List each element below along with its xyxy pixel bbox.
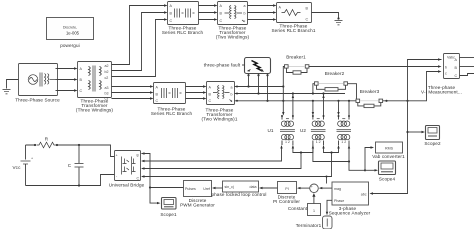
svg-text:Breaker3: Breaker3 (360, 89, 380, 94)
wire U3 right leg riser to bus C (348, 100, 350, 115)
Vcc DC source (12, 145, 33, 186)
svg-text:Pulses: Pulses (185, 187, 196, 191)
svg-text:Discrete,: Discrete, (63, 26, 77, 30)
svg-text:1 2: 1 2 (316, 140, 321, 144)
phase B wire (bus) (235, 92, 346, 94)
svg-text:a: a (231, 86, 233, 90)
wire top rail to bridge + (26, 144, 115, 157)
svg-text:(Two Windings)1: (Two Windings)1 (201, 117, 237, 122)
breaker1 (285, 55, 309, 75)
svg-text:C: C (220, 19, 223, 23)
svg-text:a: a (244, 4, 246, 8)
svg-text:c: c (244, 19, 246, 23)
wire breaker1 output to V-I measurement B (309, 65, 442, 67)
wire source A to transformer (58, 67, 78, 69)
RMS block (372, 142, 405, 159)
svg-text:U1: U1 (267, 128, 273, 133)
powergui block (47, 18, 94, 49)
wire branch up to RMS block (365, 146, 374, 170)
wire b3 to RLC branch B (112, 91, 154, 93)
svg-text:C: C (156, 99, 159, 103)
svg-text:Series RLC Branch: Series RLC Branch (162, 30, 204, 35)
svg-text:V-I Measurement...: V-I Measurement... (421, 90, 462, 95)
svg-text:1: 1 (313, 209, 315, 213)
svg-text:b2: b2 (105, 70, 109, 74)
three-phase series RLC branch (second feeder) (151, 83, 193, 117)
wires transformer to series RLC branch1 (248, 4, 277, 20)
wire U1-U2 secondary link (292, 145, 314, 153)
three-phase V-I measurement block (421, 54, 462, 95)
transformer U3 drop from bus C (337, 101, 339, 116)
wire V-I output C (460, 74, 474, 76)
phase A wire (bus) (235, 85, 285, 87)
transformer U1 (267, 115, 294, 145)
svg-text:Uref: Uref (203, 187, 210, 191)
sin_wt data block (PLL control) (211, 181, 266, 197)
three-phase source V1 (15, 64, 60, 103)
transformer U2 (300, 115, 326, 145)
breaker3 (356, 89, 383, 108)
svg-text:Universal Bridge: Universal Bridge (109, 183, 145, 188)
three-phase transformer (two windings)1 (201, 82, 237, 122)
svg-text:Scope2: Scope2 (424, 141, 441, 146)
bottom rail wire to bridge - (26, 175, 115, 187)
svg-text:PI Controller: PI Controller (273, 199, 300, 204)
svg-text:Vcc: Vcc (12, 165, 21, 170)
wire sum to PI (297, 187, 310, 189)
svg-text:+: + (31, 157, 33, 161)
svg-text:g: g (137, 153, 139, 157)
svg-text:PI: PI (285, 187, 288, 191)
svg-text:mag: mag (334, 187, 341, 191)
wires RLC branch to two-winding transformer (199, 4, 218, 20)
svg-text:phase locked loop control: phase locked loop control (211, 192, 266, 197)
svg-text:C: C (170, 19, 173, 23)
fault stem B (258, 74, 260, 94)
wire pulses branch to scope1 (150, 188, 161, 205)
svg-text:b: b (231, 93, 233, 97)
svg-text:C: C (137, 177, 140, 181)
wire U2-U3 secondary link (322, 145, 339, 153)
svg-text:+: + (116, 154, 118, 158)
wire b2 up to RLC branch B (112, 11, 168, 70)
svg-text:C: C (306, 18, 309, 22)
transformer U3 (337, 115, 352, 145)
fault stem A (248, 74, 250, 87)
svg-text:C: C (455, 74, 458, 78)
svg-text:Sequence Analyzer: Sequence Analyzer (329, 211, 371, 216)
svg-text:c2: c2 (105, 76, 109, 80)
three-phase fault block (204, 58, 271, 77)
discrete PWM generator (180, 181, 215, 208)
scope4 (379, 161, 396, 182)
svg-text:Terminator1: Terminator1 (296, 223, 322, 228)
scope1 (160, 198, 177, 218)
svg-text:Three-Phase Source: Three-Phase Source (15, 98, 60, 103)
svg-text:c: c (445, 72, 447, 76)
wire tap to Scope2 (408, 131, 426, 133)
wire constant to sum (312, 193, 315, 203)
three-phase transformer (three windings) T1 (76, 62, 113, 113)
svg-text:Series RLC Branch: Series RLC Branch (151, 111, 193, 116)
scope2 (424, 126, 441, 147)
wires RLC branch to transformer1 (186, 85, 207, 99)
constant block (288, 204, 321, 216)
transformer U1 right-leg riser to bus B (292, 94, 294, 116)
wire bridge phase A to U1 left leg (142, 145, 283, 161)
wire bridge phase C riser (142, 151, 333, 183)
svg-text:(Two Windings): (Two Windings) (216, 35, 250, 40)
svg-text:abc: abc (361, 193, 367, 197)
svg-text:C: C (209, 99, 212, 103)
wire a3 to RLC branch A (112, 85, 154, 87)
ground (source neutral) (3, 80, 19, 94)
wire bridge phase B riser (142, 151, 302, 168)
wire V-I output A (460, 57, 474, 59)
wire V-I output B (460, 66, 474, 68)
wire breaker3 output along bus to V-I measurement C (383, 70, 442, 102)
svg-text:(Three Windings): (Three Windings) (76, 108, 113, 113)
pulses wire PWM to bridge gate (142, 154, 184, 189)
svg-text:C: C (68, 163, 72, 168)
wire bus A riser to breaker1 and transformer U1 (282, 67, 284, 116)
svg-text:1e-005: 1e-005 (66, 31, 80, 36)
three-phase series RLC branch (top) (162, 2, 204, 36)
phase C wire (bus) (235, 100, 358, 102)
svg-text:+: + (311, 185, 313, 189)
terminator1 (296, 216, 332, 229)
three-phase series RLC branch1 (grounding) (271, 3, 315, 34)
measurement tap vertical (Vabc net) (370, 58, 442, 194)
svg-text:b: b (244, 12, 246, 16)
svg-text:Breaker1: Breaker1 (286, 55, 306, 60)
wire c2 up to RLC branch C (112, 18, 168, 76)
wire sin block to Uref (212, 187, 223, 189)
svg-text:Series RLC Branch1: Series RLC Branch1 (271, 28, 315, 33)
wire a2 up to RLC branch A (112, 4, 168, 64)
svg-text:Phase: Phase (334, 199, 344, 203)
svg-text:b3: b3 (105, 92, 109, 96)
svg-text:powergui: powergui (60, 43, 80, 48)
wire c3 to RLC branch C (112, 97, 154, 99)
svg-text:sin_cj: sin_cj (225, 185, 234, 189)
wire analyzer mag to sum (319, 187, 332, 189)
svg-text:C: C (80, 89, 83, 93)
svg-text:c: c (231, 99, 233, 103)
discrete PI controller (273, 182, 300, 205)
svg-text:R: R (45, 137, 49, 142)
svg-text:PWM Generator: PWM Generator (180, 203, 215, 208)
fault stem C (267, 74, 269, 101)
svg-text:Scope4: Scope4 (379, 177, 396, 182)
transformer U1 drop from bus A (312, 101, 314, 116)
wire source C to transformer (58, 89, 78, 91)
bridge input port arrows (141, 152, 145, 177)
capacitor C (68, 145, 84, 186)
svg-text:a3: a3 (105, 86, 109, 90)
svg-text:RMS: RMS (385, 147, 394, 151)
ground (top right) (335, 21, 343, 25)
three-phase transformer (two windings) top (216, 2, 250, 40)
wire branch1 output to ground (312, 13, 340, 20)
svg-text:Vab converter1: Vab converter1 (372, 154, 405, 159)
svg-text:a2: a2 (105, 64, 109, 68)
svg-text:Constant: Constant (288, 206, 308, 211)
wire analyzer phase to terminator (326, 200, 332, 215)
svg-text:U2: U2 (300, 128, 306, 133)
svg-text:data: data (250, 185, 257, 189)
wire breaker2 output down to bus C (348, 84, 358, 102)
wire PI to sin block (259, 187, 278, 189)
wire bus B riser to breaker2 (313, 84, 315, 94)
wire source B to transformer (58, 78, 78, 80)
sum junction (310, 184, 319, 194)
wire branch to Scope4 (365, 169, 378, 171)
resistor R (34, 137, 58, 148)
svg-text:three-phase fault: three-phase fault (204, 63, 241, 68)
svg-text:1 2: 1 2 (341, 140, 346, 144)
svg-text:1 2: 1 2 (285, 140, 290, 144)
svg-text:Breaker2: Breaker2 (325, 71, 345, 76)
3-phase sequence analyzer (329, 182, 371, 216)
wire U3 right leg down to measurement branch (348, 145, 366, 171)
svg-text:Scope1: Scope1 (160, 212, 177, 217)
transformer U2 right-leg riser to bus B (322, 94, 324, 116)
breaker2 (315, 71, 348, 91)
svg-text:b: b (445, 66, 447, 70)
wire U2 left leg to measurement rail (313, 145, 350, 163)
universal bridge (109, 151, 145, 188)
